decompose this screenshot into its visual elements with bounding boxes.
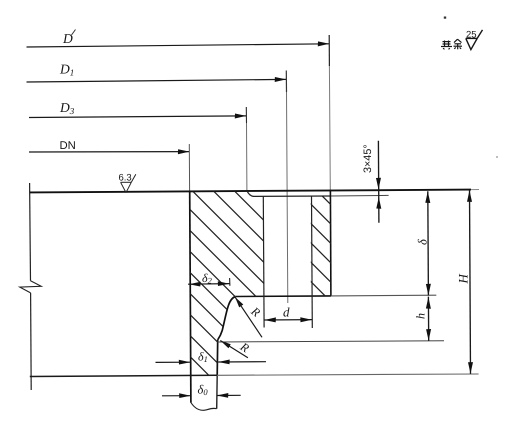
svg-text:H: H <box>455 274 470 285</box>
h tangency line <box>218 341 444 342</box>
leader R lower line <box>220 341 248 358</box>
flange bottom face <box>236 295 331 298</box>
axis line upper <box>29 183 32 281</box>
leader R upper line <box>235 297 262 338</box>
svg-text:h: h <box>414 313 428 319</box>
H bottom arrowhead <box>468 362 473 374</box>
dimension D3 line <box>29 116 246 118</box>
ogee hub fillet <box>218 297 236 340</box>
h top arrowhead <box>426 297 431 309</box>
note roughness symbol bar <box>466 37 477 39</box>
delta0 right arrowhead <box>217 393 229 398</box>
svg-text:3×45°: 3×45° <box>362 144 374 173</box>
line B extension <box>331 194 389 197</box>
leader R lower arrowhead <box>220 341 230 349</box>
axis break zigzag <box>20 281 41 293</box>
note qiyu glyph 1 (qi) <box>441 41 452 50</box>
delta0 left arrowhead <box>179 393 191 398</box>
bolt hole left edge and d extension <box>262 196 265 327</box>
note roughness check stroke <box>477 30 482 39</box>
dimension H vertical line <box>470 190 471 374</box>
svg-text:D3: D3 <box>59 100 75 116</box>
pipe outer wall stub <box>216 375 219 409</box>
delta2 extension tick <box>229 278 231 286</box>
dimension D line <box>27 44 330 47</box>
bolt hole right edge and d extension <box>311 196 314 328</box>
dimension 3x45 vertical line <box>377 141 380 223</box>
faint speck right edge <box>496 156 498 158</box>
d left arrowhead <box>264 317 276 322</box>
d right arrowhead <box>300 317 312 322</box>
extension line for D <box>328 35 330 66</box>
dimension DN arrowhead <box>178 149 190 154</box>
svg-text:R: R <box>248 303 264 320</box>
hatch of hub and flange left section <box>183 140 272 433</box>
chamfer at raised face edge <box>247 191 253 196</box>
svg-text:D: D <box>62 31 73 46</box>
dimension D1 arrowhead <box>275 77 287 82</box>
extension line for DN <box>188 144 190 191</box>
delta2 right arrowhead <box>218 281 230 286</box>
svg-text:d: d <box>283 305 290 320</box>
extension line for D3 <box>245 107 247 123</box>
dimension delta1 right segment <box>218 361 266 363</box>
dimension delta vertical line <box>427 191 430 295</box>
bottom line thick part <box>30 375 217 376</box>
svg-text:DN: DN <box>60 140 76 152</box>
extension line / bolt centerline for D1 <box>285 71 287 93</box>
3x45 lower arrowhead <box>376 197 381 209</box>
bottom line extension <box>217 374 479 375</box>
dimension d line <box>264 319 312 321</box>
dimension delta0 left segment <box>162 395 191 397</box>
leader R upper arrowhead <box>235 297 243 307</box>
delta1 left arrowhead <box>179 360 191 365</box>
line B: flange top face <box>253 195 331 197</box>
line A faint extension <box>471 189 479 191</box>
h bottom arrowhead <box>426 329 431 341</box>
stray tick after D <box>72 30 76 36</box>
svg-text:δ: δ <box>416 239 430 245</box>
flange bottom extension <box>331 294 436 297</box>
note qiyu glyph 2 (yu) <box>454 39 463 49</box>
svg-text:D1: D1 <box>59 62 74 78</box>
svg-text:δ0: δ0 <box>198 383 209 398</box>
H top arrowhead <box>467 190 472 202</box>
delta bottom arrowhead <box>426 284 431 296</box>
svg-text:6.3: 6.3 <box>119 173 132 184</box>
hatch of flange right section <box>300 174 340 311</box>
svg-text:25: 25 <box>466 29 477 40</box>
dimension DN line <box>29 151 189 153</box>
3x45 upper arrowhead <box>376 178 381 190</box>
note roughness triangle <box>466 38 477 49</box>
roughness symbol 6.3 <box>121 174 136 192</box>
flange OD edge <box>329 191 332 296</box>
dimension delta0 right segment <box>217 394 241 396</box>
dimension delta2 line <box>188 283 230 286</box>
dimension D3 arrowhead <box>235 114 247 119</box>
delta top arrowhead <box>425 191 430 203</box>
bore edge <box>190 192 191 403</box>
delta2 left arrowhead <box>189 282 201 287</box>
dimension delta1 left segment <box>156 361 191 363</box>
dimension h vertical line <box>427 297 429 341</box>
delta1 right arrowhead <box>218 360 230 365</box>
pipe break wavy line <box>191 402 217 410</box>
dimension D arrowhead <box>318 41 330 46</box>
dimension D1 line <box>27 79 287 82</box>
speck dot <box>444 17 446 19</box>
line A: top sealing face <box>30 190 471 193</box>
axis line lower <box>30 293 33 390</box>
hub outer wall <box>216 340 219 375</box>
